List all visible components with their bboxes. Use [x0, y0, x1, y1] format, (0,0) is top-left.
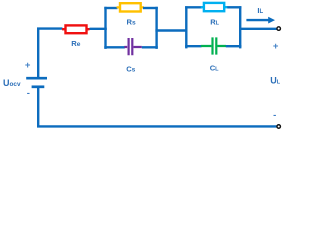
wire: top-left vertical from battery to top rail — [37, 29, 39, 78]
wire: battery to bottom rail — [37, 87, 39, 128]
wire: RC2 left vertical — [185, 6, 187, 48]
capacitor Cs leads — [124, 46, 142, 48]
capacitor Cs plates — [129, 38, 133, 55]
resistor Re — [66, 25, 87, 33]
capacitor CL leads — [201, 45, 226, 47]
svg-text:+: + — [273, 41, 279, 52]
svg-text:-: - — [273, 110, 276, 121]
capacitor CL plates — [213, 37, 217, 54]
resistor Rs leads — [117, 6, 144, 8]
wire: right rail to terminal — [239, 28, 277, 30]
wire: RC1 top branch left — [104, 7, 117, 9]
wire: RC1 left vertical — [104, 7, 106, 49]
svg-text:+: + — [25, 60, 31, 71]
terminal circle top right — [277, 27, 281, 31]
svg-text:-: - — [27, 88, 30, 99]
battery Uocv top plate — [26, 77, 47, 80]
resistor Re leads — [62, 28, 90, 30]
wire: RC2 top branch left — [185, 6, 202, 8]
wire: RC2 bottom branch left — [185, 45, 201, 47]
wire: RC2 top branch right — [227, 6, 241, 8]
wire: RC1 bottom branch right — [142, 46, 158, 48]
wire: RC2 right vertical — [239, 6, 241, 48]
resistor RL leads — [201, 6, 228, 8]
wire: RC2 bottom branch right — [226, 45, 242, 47]
svg-text:Rs: Rs — [127, 18, 136, 27]
battery Uocv bottom plate — [32, 85, 45, 88]
wire: middle rail between RC1 and RC2 — [155, 29, 187, 31]
wire: RC1 bottom branch left — [104, 46, 125, 48]
svg-text:Re: Re — [71, 39, 80, 48]
wire: rail Re to RC1 — [90, 28, 107, 30]
svg-text:Cs: Cs — [126, 64, 135, 73]
wire: RC1 top branch right — [143, 7, 158, 9]
terminal circle bottom right — [277, 125, 281, 129]
current arrow IL — [246, 19, 268, 21]
wire: RC1 right vertical — [155, 7, 157, 49]
resistor Rs — [120, 3, 141, 11]
resistor RL — [204, 3, 224, 11]
wire: top rail left segment to Re — [37, 27, 63, 29]
wire: bottom rail — [37, 125, 277, 127]
